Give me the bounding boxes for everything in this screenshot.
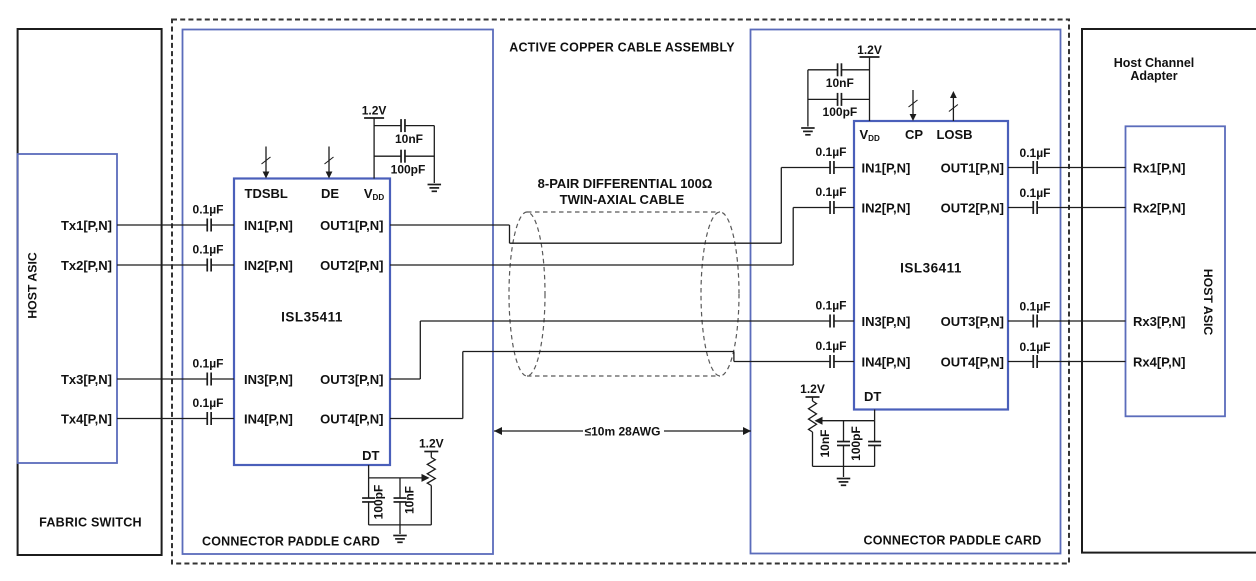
- svg-text:100pF: 100pF: [849, 426, 863, 461]
- svg-text:Tx1[P,N]: Tx1[P,N]: [61, 218, 112, 233]
- svg-text:0.1µF: 0.1µF: [193, 243, 224, 257]
- svg-text:0.1µF: 0.1µF: [816, 145, 847, 159]
- svg-text:LOSB: LOSB: [936, 127, 972, 142]
- svg-text:IN2[P,N]: IN2[P,N]: [244, 258, 293, 273]
- svg-text:0.1µF: 0.1µF: [1020, 340, 1051, 354]
- svg-text:CP: CP: [905, 127, 923, 142]
- svg-text:TWIN-AXIAL CABLE: TWIN-AXIAL CABLE: [560, 192, 685, 207]
- svg-text:OUT1[P,N]: OUT1[P,N]: [320, 218, 383, 233]
- svg-text:IN1[P,N]: IN1[P,N]: [244, 218, 293, 233]
- svg-text:Rx3[P,N]: Rx3[P,N]: [1133, 314, 1186, 329]
- svg-text:8-PAIR DIFFERENTIAL 100Ω: 8-PAIR DIFFERENTIAL 100Ω: [538, 176, 713, 191]
- svg-text:0.1µF: 0.1µF: [816, 339, 847, 353]
- svg-text:1.2V: 1.2V: [857, 43, 882, 57]
- svg-text:10nF: 10nF: [395, 132, 423, 146]
- svg-text:DT: DT: [864, 389, 881, 404]
- svg-text:10nF: 10nF: [826, 76, 854, 90]
- svg-text:ISL36411: ISL36411: [900, 261, 962, 276]
- svg-text:IN4[P,N]: IN4[P,N]: [244, 411, 293, 426]
- svg-text:Tx4[P,N]: Tx4[P,N]: [61, 411, 112, 426]
- svg-text:≤10m 28AWG: ≤10m 28AWG: [585, 424, 661, 438]
- svg-text:OUT1[P,N]: OUT1[P,N]: [941, 160, 1004, 175]
- svg-text:1.2V: 1.2V: [419, 437, 444, 451]
- svg-text:100pF: 100pF: [823, 105, 858, 119]
- svg-text:0.1µF: 0.1µF: [193, 396, 224, 410]
- svg-text:CONNECTOR PADDLE CARD: CONNECTOR PADDLE CARD: [863, 534, 1041, 548]
- svg-text:IN3[P,N]: IN3[P,N]: [862, 314, 911, 329]
- svg-text:0.1µF: 0.1µF: [1020, 186, 1051, 200]
- svg-text:IN4[P,N]: IN4[P,N]: [862, 354, 911, 369]
- svg-text:0.1µF: 0.1µF: [1020, 146, 1051, 160]
- svg-text:OUT4[P,N]: OUT4[P,N]: [941, 354, 1004, 369]
- svg-text:OUT4[P,N]: OUT4[P,N]: [320, 411, 383, 426]
- svg-text:Adapter: Adapter: [1130, 69, 1177, 83]
- svg-text:OUT2[P,N]: OUT2[P,N]: [320, 258, 383, 273]
- svg-text:ACTIVE COPPER CABLE ASSEMBLY: ACTIVE COPPER CABLE ASSEMBLY: [509, 41, 735, 55]
- svg-text:IN2[P,N]: IN2[P,N]: [862, 200, 911, 215]
- svg-text:1.2V: 1.2V: [362, 104, 387, 118]
- svg-text:HOST ASIC: HOST ASIC: [1201, 269, 1215, 336]
- svg-text:TDSBL: TDSBL: [245, 186, 288, 201]
- svg-text:HOST ASIC: HOST ASIC: [26, 252, 40, 319]
- svg-text:Rx2[P,N]: Rx2[P,N]: [1133, 200, 1186, 215]
- svg-text:100pF: 100pF: [391, 163, 426, 177]
- svg-text:0.1µF: 0.1µF: [816, 299, 847, 313]
- svg-text:Rx1[P,N]: Rx1[P,N]: [1133, 160, 1186, 175]
- svg-text:10nF: 10nF: [818, 429, 832, 457]
- svg-text:CONNECTOR PADDLE CARD: CONNECTOR PADDLE CARD: [202, 535, 380, 549]
- svg-text:1.2V: 1.2V: [800, 382, 825, 396]
- svg-text:DE: DE: [321, 186, 339, 201]
- svg-text:Tx3[P,N]: Tx3[P,N]: [61, 372, 112, 387]
- svg-text:IN3[P,N]: IN3[P,N]: [244, 372, 293, 387]
- svg-text:DT: DT: [362, 448, 379, 463]
- svg-text:0.1µF: 0.1µF: [193, 203, 224, 217]
- svg-text:0.1µF: 0.1µF: [816, 185, 847, 199]
- svg-text:0.1µF: 0.1µF: [193, 357, 224, 371]
- svg-text:Host Channel: Host Channel: [1114, 56, 1195, 70]
- svg-text:0.1µF: 0.1µF: [1020, 300, 1051, 314]
- svg-text:IN1[P,N]: IN1[P,N]: [862, 160, 911, 175]
- svg-text:OUT2[P,N]: OUT2[P,N]: [941, 200, 1004, 215]
- svg-text:OUT3[P,N]: OUT3[P,N]: [941, 314, 1004, 329]
- svg-text:Rx4[P,N]: Rx4[P,N]: [1133, 354, 1186, 369]
- svg-text:10nF: 10nF: [403, 486, 417, 514]
- svg-text:Tx2[P,N]: Tx2[P,N]: [61, 258, 112, 273]
- svg-text:ISL35411: ISL35411: [281, 310, 343, 325]
- svg-text:OUT3[P,N]: OUT3[P,N]: [320, 372, 383, 387]
- svg-text:100pF: 100pF: [372, 485, 386, 520]
- svg-text:FABRIC SWITCH: FABRIC SWITCH: [39, 516, 142, 530]
